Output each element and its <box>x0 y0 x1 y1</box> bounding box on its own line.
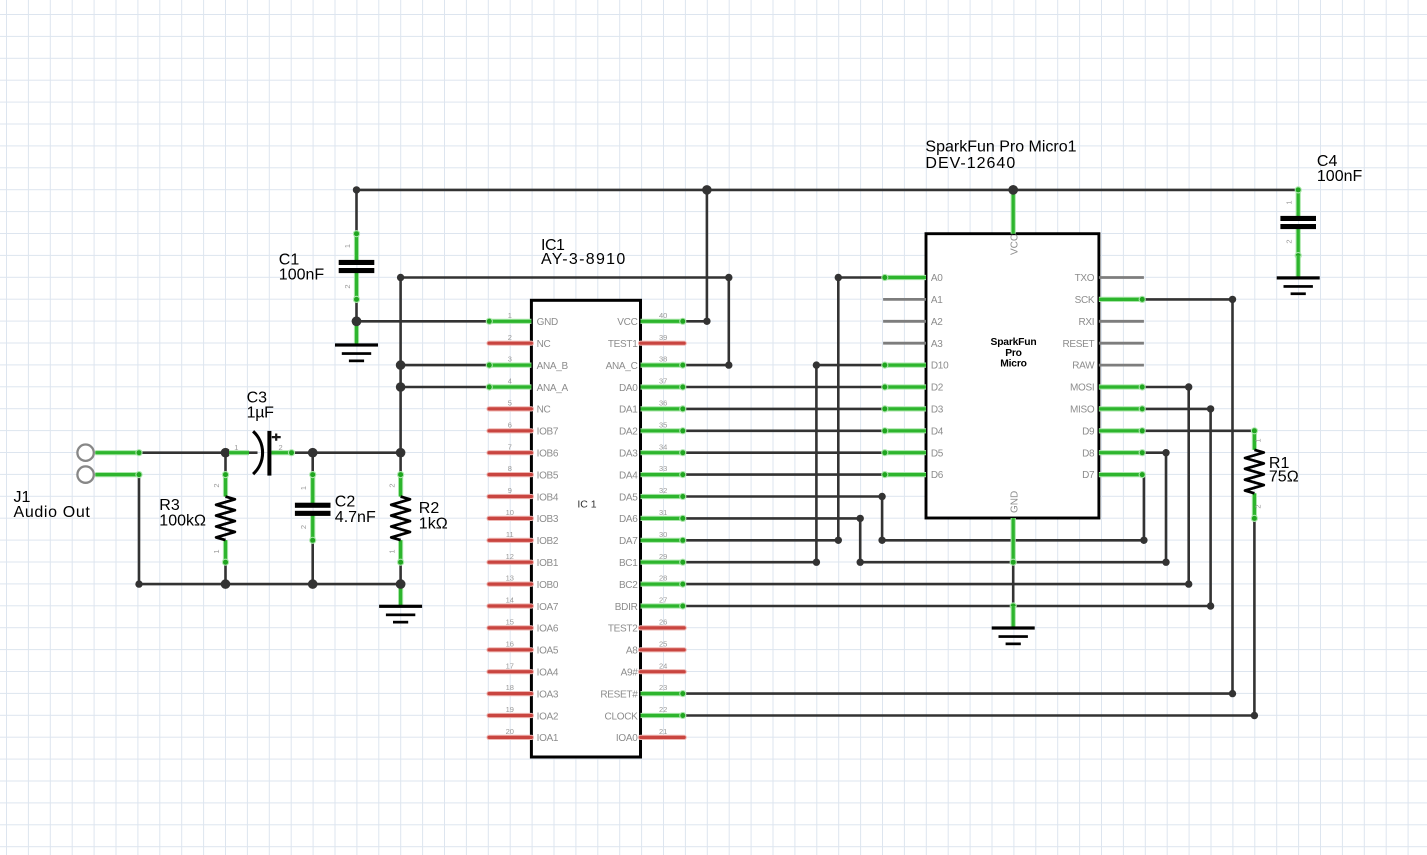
IC1 pin numbers 40-21 <box>659 311 667 736</box>
Pro Micro VCC pin <box>1009 190 1020 255</box>
junction overlays (dots drawn over pin highlights) <box>352 185 1018 589</box>
capacitor C1 <box>339 230 375 303</box>
junction R2 bottom / ground tap <box>396 579 406 589</box>
svg-text:2: 2 <box>343 284 352 288</box>
wire BDIR to MISO <box>684 409 1210 606</box>
svg-text:17: 17 <box>506 661 514 670</box>
svg-text:IOA1: IOA1 <box>537 733 559 744</box>
svg-text:15: 15 <box>506 618 514 627</box>
svg-text:IOB1: IOB1 <box>537 558 559 569</box>
wire bend IC1 VCC corner <box>703 318 710 325</box>
svg-text:D7: D7 <box>1082 470 1095 481</box>
Pro Micro pin labels (right) <box>1062 273 1095 481</box>
svg-text:D4: D4 <box>931 426 944 437</box>
svg-text:D10: D10 <box>931 361 949 372</box>
label C1 100nF <box>279 252 325 284</box>
svg-text:VCC: VCC <box>617 317 637 328</box>
wire VCC rail to C1 pin 1 <box>355 190 358 234</box>
wire bend <box>1140 537 1147 544</box>
svg-text:21: 21 <box>659 727 667 736</box>
wire bend <box>1185 383 1192 390</box>
svg-text:IOB3: IOB3 <box>537 514 559 525</box>
svg-text:A0: A0 <box>931 273 943 284</box>
svg-text:IOA3: IOA3 <box>537 689 559 700</box>
junction ANA_A tap <box>396 382 406 392</box>
label SparkFun Pro Micro1 DEV-12640 <box>925 138 1076 172</box>
node GND (C1 / IC1 pin 1) <box>355 299 358 321</box>
svg-text:TEST1: TEST1 <box>608 339 638 350</box>
wire CLOCK to R1 pin 2 <box>684 518 1254 715</box>
wire C3 pin2 to C2/R2 node <box>292 451 401 454</box>
svg-text:18: 18 <box>506 683 514 692</box>
wire bend <box>813 559 820 566</box>
capacitor C2 <box>295 471 331 544</box>
Pro Micro pin labels (left) <box>931 273 949 481</box>
wire BC2 to MOSI <box>684 387 1188 584</box>
wire bend <box>857 515 864 522</box>
wire D9 to R1 pin 1 <box>1144 429 1255 432</box>
wire DA7 to A0 <box>684 278 883 541</box>
svg-text:A2: A2 <box>931 317 943 328</box>
label IC1 AY-3-8910 <box>541 237 627 268</box>
IC1 pins 1-20 (left) <box>486 318 532 738</box>
svg-text:DA3: DA3 <box>619 449 638 460</box>
svg-text:CLOCK: CLOCK <box>605 711 639 722</box>
svg-text:1: 1 <box>1285 200 1294 204</box>
svg-text:BC2: BC2 <box>619 580 638 591</box>
junction R3 bottom <box>221 579 231 589</box>
junction VCC rail / IC1 branch <box>702 185 712 195</box>
svg-text:D3: D3 <box>931 405 944 416</box>
label J1 Audio Out <box>14 489 91 521</box>
resistor R1 <box>1245 427 1264 522</box>
svg-text:20: 20 <box>506 727 514 736</box>
svg-text:RESET: RESET <box>1062 339 1094 350</box>
svg-text:RESET#: RESET# <box>600 689 638 700</box>
svg-text:TEST2: TEST2 <box>608 624 638 635</box>
svg-text:DA7: DA7 <box>619 536 638 547</box>
svg-text:39: 39 <box>659 333 667 342</box>
svg-text:1: 1 <box>508 311 512 320</box>
svg-text:10: 10 <box>506 508 514 517</box>
svg-text:D2: D2 <box>931 383 944 394</box>
wire bend <box>878 537 885 544</box>
ground (audio return) <box>379 584 422 623</box>
wire DA6 to D8 <box>684 453 1166 563</box>
microcontroller U1 SparkFun Pro Micro body <box>926 234 1099 518</box>
svg-text:75Ω: 75Ω <box>1269 469 1299 486</box>
bend bottom-left corner <box>135 580 142 587</box>
svg-text:24: 24 <box>659 661 667 670</box>
wire C1 pin2 to IC1 GND <box>357 320 488 323</box>
svg-text:ANA_C: ANA_C <box>606 361 638 372</box>
svg-text:36: 36 <box>659 399 667 408</box>
wire DA1 to D3 <box>684 408 883 411</box>
svg-text:29: 29 <box>659 552 667 561</box>
svg-text:DA4: DA4 <box>619 470 638 481</box>
svg-text:26: 26 <box>659 618 667 627</box>
label R1 75 ohm <box>1269 455 1299 486</box>
svg-text:25: 25 <box>659 639 667 648</box>
ground (C4) <box>1277 256 1320 296</box>
op-amp/PSG IC1 AY-3-8910 body <box>531 300 640 757</box>
IC1 pin labels (right) <box>600 317 638 744</box>
svg-text:IOA0: IOA0 <box>616 733 638 744</box>
wire bend at C1 top <box>353 186 360 193</box>
svg-text:1: 1 <box>234 443 238 452</box>
svg-text:1kΩ: 1kΩ <box>419 516 448 533</box>
wire BC1 to D10 <box>684 365 883 562</box>
wire DA0 to D2 <box>684 386 883 389</box>
svg-text:8: 8 <box>508 464 512 473</box>
ground bars R2 <box>379 605 422 624</box>
svg-text:A9#: A9# <box>621 668 639 679</box>
svg-text:IOA6: IOA6 <box>537 624 559 635</box>
node audio (J1-1 / C3 / R3 / R2 / C2) <box>139 451 258 454</box>
junction R3 top <box>221 448 231 458</box>
svg-text:R2: R2 <box>419 500 440 517</box>
svg-text:VCC: VCC <box>1009 234 1020 255</box>
svg-text:ANA_B: ANA_B <box>537 361 569 372</box>
label C3 1uF <box>247 389 275 421</box>
svg-text:DA6: DA6 <box>619 514 638 525</box>
svg-text:1µF: 1µF <box>247 404 275 421</box>
wire DA2 to D4 <box>684 429 883 432</box>
wire C2 bottom lead <box>311 540 314 584</box>
svg-text:DEV-12640: DEV-12640 <box>925 155 1016 172</box>
wire bend <box>1185 580 1192 587</box>
svg-text:2: 2 <box>1254 504 1263 508</box>
svg-text:14: 14 <box>506 596 514 605</box>
bend left bus top corner <box>397 274 404 281</box>
svg-text:2: 2 <box>212 483 221 487</box>
svg-text:MOSI: MOSI <box>1070 383 1094 394</box>
bend ANA_C right corner <box>725 361 732 368</box>
wire DA4 to D6 <box>684 473 883 476</box>
Pro Micro pins (left) <box>881 274 926 478</box>
wire bend <box>835 537 842 544</box>
wire bend <box>1162 559 1169 566</box>
resistor R2 <box>387 471 410 566</box>
wire DA5 to D7 <box>684 475 1144 541</box>
junction R2 top / bus <box>396 448 406 458</box>
ground (Pro Micro) <box>992 602 1035 645</box>
svg-text:2: 2 <box>508 333 512 342</box>
svg-text:AY-3-8910: AY-3-8910 <box>541 251 627 268</box>
svg-text:35: 35 <box>659 420 667 429</box>
Pro Micro GND pin <box>1009 491 1020 566</box>
svg-text:ANA_A: ANA_A <box>537 383 569 394</box>
svg-text:IOB4: IOB4 <box>537 492 559 503</box>
svg-text:34: 34 <box>659 442 667 451</box>
ground bars C4 <box>1277 276 1320 295</box>
svg-text:100nF: 100nF <box>279 267 325 284</box>
svg-text:28: 28 <box>659 574 667 583</box>
IC1 pins 40-21 (right) <box>641 318 687 738</box>
wire bend <box>1229 690 1236 697</box>
wire J1 pin2 down and along bottom <box>139 475 401 584</box>
svg-text:RAW: RAW <box>1072 361 1095 372</box>
svg-text:1: 1 <box>343 244 352 248</box>
svg-text:7: 7 <box>508 442 512 451</box>
svg-text:IOA5: IOA5 <box>537 646 559 657</box>
wire to IC1 ANA_B <box>401 364 488 367</box>
label SparkFun Pro Micro (internal) <box>991 337 1037 369</box>
svg-text:GND: GND <box>1009 491 1020 513</box>
svg-text:37: 37 <box>659 377 667 386</box>
svg-text:IOB6: IOB6 <box>537 449 559 460</box>
junction C2 bottom <box>308 579 318 589</box>
svg-text:IOA7: IOA7 <box>537 602 559 613</box>
svg-text:2: 2 <box>279 443 283 452</box>
capacitor C3 (polarized) <box>229 431 295 476</box>
label R3 100k <box>159 497 206 529</box>
svg-text:100kΩ: 100kΩ <box>159 512 206 529</box>
svg-text:2: 2 <box>387 483 396 487</box>
wire DA3 to D5 <box>684 451 883 454</box>
wire VCC rail down to IC1 VCC <box>706 190 709 321</box>
IC1 pin labels (left) <box>537 317 569 744</box>
bend ANA_C top corner <box>725 274 732 281</box>
svg-text:NC: NC <box>537 405 551 416</box>
svg-text:NC: NC <box>537 339 551 350</box>
svg-text:31: 31 <box>659 508 667 517</box>
svg-text:DA5: DA5 <box>619 492 638 503</box>
junction ANA_B tap <box>396 360 406 370</box>
svg-text:DA1: DA1 <box>619 405 638 416</box>
svg-text:3: 3 <box>508 355 512 364</box>
wire bend <box>835 274 842 281</box>
svg-text:SparkFun Pro Micro1: SparkFun Pro Micro1 <box>925 138 1076 155</box>
svg-text:IOB0: IOB0 <box>537 580 559 591</box>
svg-text:4.7nF: 4.7nF <box>335 509 376 526</box>
svg-text:33: 33 <box>659 464 667 473</box>
ground (C1) <box>335 321 378 362</box>
svg-text:IOB5: IOB5 <box>537 470 559 481</box>
svg-text:RXI: RXI <box>1079 317 1095 328</box>
svg-text:30: 30 <box>659 530 667 539</box>
wire bend <box>878 493 885 500</box>
svg-text:IOB7: IOB7 <box>537 427 559 438</box>
svg-text:SparkFun: SparkFun <box>991 337 1037 348</box>
wire R3 top lead <box>224 453 227 475</box>
svg-text:IOA4: IOA4 <box>537 668 559 679</box>
svg-text:D8: D8 <box>1082 448 1095 459</box>
svg-text:4: 4 <box>508 377 512 386</box>
svg-text:2: 2 <box>1285 239 1294 243</box>
svg-text:1: 1 <box>1254 438 1263 442</box>
wire bend <box>1207 405 1214 412</box>
svg-text:SCK: SCK <box>1075 295 1095 306</box>
svg-text:IOB2: IOB2 <box>537 536 559 547</box>
wire R3 bottom lead <box>224 562 227 584</box>
Pro Micro pins (right) <box>1099 278 1146 479</box>
svg-text:1: 1 <box>387 549 396 553</box>
wire bend <box>1162 449 1169 456</box>
node VCC rail <box>357 189 1299 192</box>
wire R2 top lead <box>399 453 402 475</box>
wire R2 bottom lead <box>399 562 402 584</box>
svg-text:100nF: 100nF <box>1317 168 1363 185</box>
wire to IC1 pin 40 VCC <box>683 320 707 323</box>
svg-text:32: 32 <box>659 486 667 495</box>
svg-text:Audio Out: Audio Out <box>14 504 91 521</box>
svg-text:23: 23 <box>659 683 667 692</box>
svg-text:BC1: BC1 <box>619 558 638 569</box>
svg-text:16: 16 <box>506 639 514 648</box>
svg-text:27: 27 <box>659 596 667 605</box>
capacitor C4 <box>1280 186 1316 259</box>
svg-text:IOA2: IOA2 <box>537 711 559 722</box>
wire ANA_C over IC1 to left bus <box>401 278 729 453</box>
wire bend <box>857 559 864 566</box>
label C2 4.7nF <box>335 494 376 526</box>
wire bend <box>1229 296 1236 303</box>
svg-text:BDIR: BDIR <box>615 602 638 613</box>
label C4 100nF <box>1317 153 1363 185</box>
svg-text:2: 2 <box>299 525 308 529</box>
svg-text:A8: A8 <box>626 646 638 657</box>
svg-text:1: 1 <box>299 486 308 490</box>
svg-text:1: 1 <box>212 549 221 553</box>
svg-text:Pro: Pro <box>1005 348 1022 359</box>
wire bend <box>1251 712 1258 719</box>
ground bars Pro Micro <box>992 626 1035 645</box>
junction C2 top <box>308 448 318 458</box>
svg-text:19: 19 <box>506 705 514 714</box>
IC1 pin numbers 1-20 <box>506 311 514 736</box>
svg-text:D6: D6 <box>931 470 944 481</box>
wire bend <box>1207 602 1214 609</box>
svg-text:DA2: DA2 <box>619 427 638 438</box>
svg-text:TXO: TXO <box>1075 273 1095 284</box>
svg-text:GND: GND <box>537 317 558 328</box>
wire RESET# to SCK <box>684 299 1232 693</box>
resistor R3 <box>212 471 235 566</box>
svg-text:Micro: Micro <box>1000 359 1026 370</box>
junction VCC rail / Pro Micro VCC <box>1008 185 1018 195</box>
wire Pro Micro GND to ground <box>1012 562 1015 606</box>
label R2 1k <box>419 500 448 533</box>
svg-text:A1: A1 <box>931 295 943 306</box>
svg-text:MISO: MISO <box>1070 405 1095 416</box>
svg-text:40: 40 <box>659 311 667 320</box>
svg-text:22: 22 <box>659 705 667 714</box>
ground bars C1 <box>335 343 378 362</box>
wire to IC1 ANA_A <box>401 386 488 389</box>
junction C1 / ground / IC1 GND <box>352 317 362 327</box>
svg-text:6: 6 <box>508 420 512 429</box>
wire bend <box>813 361 820 368</box>
svg-text:D5: D5 <box>931 448 944 459</box>
svg-text:13: 13 <box>506 574 514 583</box>
svg-text:9: 9 <box>508 486 512 495</box>
svg-text:A3: A3 <box>931 339 943 350</box>
svg-text:12: 12 <box>506 552 514 561</box>
svg-text:11: 11 <box>506 530 514 539</box>
svg-text:IC 1: IC 1 <box>577 499 596 511</box>
svg-text:D9: D9 <box>1082 426 1095 437</box>
connector J1 Audio Out <box>77 445 142 483</box>
wire C2 top lead <box>311 453 314 475</box>
svg-text:38: 38 <box>659 355 667 364</box>
svg-text:DA0: DA0 <box>619 383 638 394</box>
svg-text:5: 5 <box>508 399 512 408</box>
